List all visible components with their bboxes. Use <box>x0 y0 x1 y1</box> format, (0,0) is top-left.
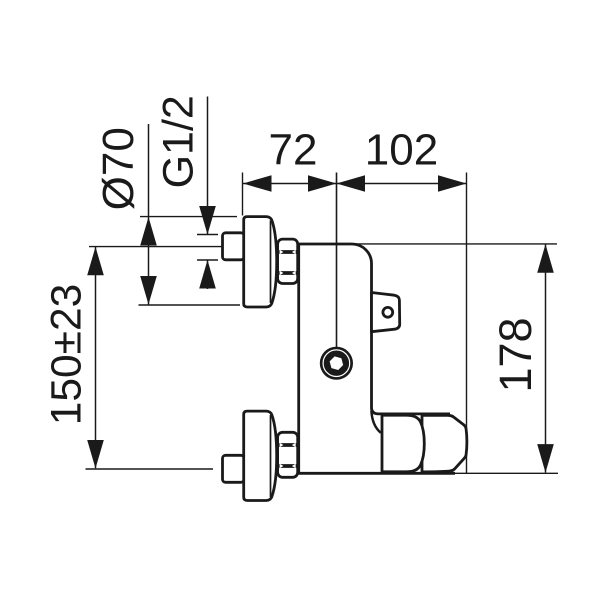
body bottom edge <box>297 472 455 475</box>
lower escutcheon flange Ø70 <box>244 411 277 500</box>
upper hex nut <box>278 239 298 283</box>
tick G1/2 bottom (y=260) <box>197 259 218 261</box>
svg-text:G1/2: G1/2 <box>155 95 203 188</box>
svg-text:102: 102 <box>365 126 438 175</box>
svg-text:178: 178 <box>490 317 541 392</box>
arrow left (102) <box>337 175 366 192</box>
extension line top right (y=244 body top to 178 dim) <box>353 243 557 245</box>
extension line Ø70 bottom (y=305) <box>139 304 241 306</box>
dimension line 150±23 (x=95.5) <box>95 247 97 468</box>
arrow down (178) <box>537 444 554 473</box>
upper escutcheon flange Ø70 <box>244 217 277 307</box>
dimension line 72/102 (y=183.5) <box>243 183 467 185</box>
extension line bottom right (y=473.3 to 178 dim) <box>455 472 558 474</box>
mounting tab with hole <box>372 293 400 332</box>
arrow up (G1/2) <box>199 260 216 289</box>
lower connector stub G1/2 <box>223 455 245 482</box>
dimension line G1/2 (x=207.5) <box>207 97 209 235</box>
axis line upper (wall pipe centerline, 150 dim top reference) <box>89 246 222 248</box>
svg-text:Ø70: Ø70 <box>94 127 143 210</box>
svg-text:72: 72 <box>269 126 318 175</box>
axis line lower (wall pipe centerline, 150 dim bottom reference) <box>86 468 214 470</box>
lower hex nut <box>278 432 298 477</box>
extension line Ø70 top (y=216.6) <box>140 216 237 218</box>
arrow down (150±23) <box>87 440 104 469</box>
svg-text:150±23: 150±23 <box>44 284 91 426</box>
dimension line Ø70 (x=148.5) <box>148 124 150 305</box>
mixer body <box>299 244 455 473</box>
extension line x=466.5 (right end of 102 down to handle) <box>466 173 468 474</box>
arrow up (Ø70) <box>140 217 157 246</box>
neck contour curve under body corner <box>371 411 380 433</box>
upper connector stub G1/2 <box>223 233 245 260</box>
arrow up (178) <box>537 244 554 273</box>
center knob with hex socket <box>320 347 353 380</box>
handle collar (inner D shape) <box>382 415 424 472</box>
arrow right (102) <box>438 175 467 192</box>
handle knob (outer D shape) <box>422 415 467 472</box>
arrow down (Ø70) <box>140 276 157 305</box>
arrow right (72) <box>308 175 337 192</box>
dimension line 178 (x=545.5) <box>545 244 547 472</box>
extension line x=242.5 (wall plane, left end of 72) <box>242 173 244 216</box>
extension line x=336.5 (body centerline down to knob) <box>336 173 338 348</box>
arrow left (72) <box>243 175 272 192</box>
arrow down (G1/2) <box>199 206 216 235</box>
arrow up (150±23) <box>87 247 104 275</box>
tick G1/2 top (y=234.5) <box>197 234 218 236</box>
